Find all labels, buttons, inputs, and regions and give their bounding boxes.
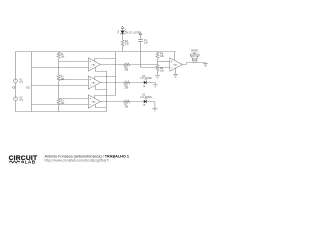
svg-text:LAB: LAB <box>25 160 36 165</box>
svg-text:330: 330 <box>125 43 130 46</box>
svg-text:LTL-307EE: LTL-307EE <box>140 78 152 80</box>
svg-text:OA2: OA2 <box>91 82 96 85</box>
svg-text:10k: 10k <box>124 105 129 108</box>
svg-text:5 V: 5 V <box>19 81 23 84</box>
svg-text:10k: 10k <box>124 86 129 89</box>
svg-text:8Ω: 8Ω <box>193 53 196 55</box>
svg-text:OA3: OA3 <box>91 101 96 104</box>
svg-text:1uF: 1uF <box>144 41 149 44</box>
svg-text:https://www.circuitlab.com/cir: https://www.circuitlab.com/circuit/pzg95… <box>45 159 110 163</box>
svg-text:1A: 1A <box>143 104 146 107</box>
svg-text:D4: D4 <box>118 30 120 34</box>
svg-text:OA4: OA4 <box>173 64 178 67</box>
svg-text:10k: 10k <box>61 56 66 59</box>
svg-text:LTL-307EE: LTL-307EE <box>140 97 152 99</box>
svg-text:D4 LTL-307EE: D4 LTL-307EE <box>125 31 141 34</box>
svg-text:1A: 1A <box>143 85 146 88</box>
svg-text:10k: 10k <box>160 55 165 58</box>
svg-text:5 V: 5 V <box>19 99 23 102</box>
svg-text:VS1: VS1 <box>26 87 31 89</box>
svg-text:10k: 10k <box>160 70 165 73</box>
svg-text:10k: 10k <box>124 68 129 71</box>
svg-text:OA1: OA1 <box>91 64 96 67</box>
